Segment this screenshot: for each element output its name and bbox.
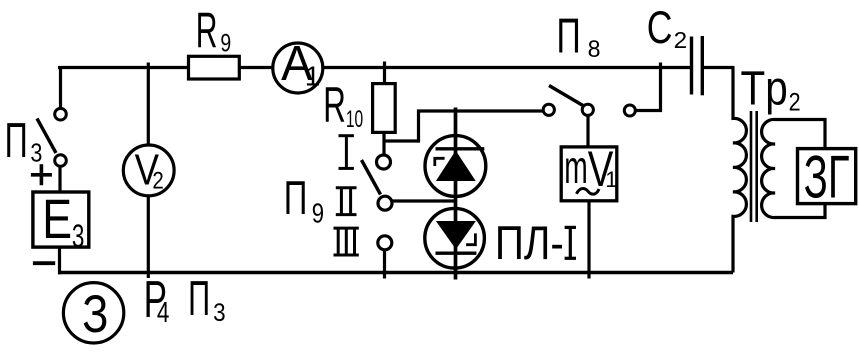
transformer Tр2 secondary winding bbox=[762, 119, 825, 217]
switch П8 left contact bbox=[543, 104, 554, 115]
svg-text:R: R bbox=[323, 77, 346, 133]
battery E3 box bbox=[33, 192, 89, 247]
svg-text:3: 3 bbox=[213, 299, 226, 327]
svg-text:ПЛ-: ПЛ- bbox=[495, 216, 564, 269]
label plus bbox=[31, 164, 52, 185]
label П3 left bbox=[5, 114, 43, 168]
wire jog R10 node to П8 left contact bbox=[385, 111, 544, 141]
wire V2 branch upper bbox=[147, 63, 150, 149]
label П8 bbox=[557, 9, 601, 63]
upper diode corner mark bbox=[435, 158, 445, 166]
wire R10 stub bbox=[383, 62, 386, 84]
wire mV1 to bottom bus bbox=[587, 201, 590, 279]
transformer Tр2 core bbox=[751, 111, 757, 222]
svg-text:2: 2 bbox=[152, 167, 163, 194]
switch П9 contact I bbox=[377, 155, 391, 169]
svg-text:10: 10 bbox=[346, 106, 363, 133]
wire battery to bottom bus bbox=[58, 247, 61, 274]
label C2 bbox=[647, 2, 688, 53]
transformer Tр2 primary winding bbox=[733, 68, 746, 273]
svg-text:E: E bbox=[42, 187, 72, 250]
label R10 bbox=[323, 77, 363, 133]
lower diode cathode bar bbox=[436, 252, 477, 255]
switch arm П9 bbox=[362, 160, 381, 195]
switch П8 right contact bbox=[624, 105, 635, 116]
label position I bbox=[339, 136, 354, 169]
label ПЛ-I roman I bbox=[565, 227, 576, 258]
wire П9 position III to bottom bus bbox=[383, 250, 386, 279]
svg-text:C: C bbox=[647, 2, 673, 53]
svg-text:8: 8 bbox=[588, 36, 601, 63]
label mV1 tilde bbox=[577, 188, 600, 194]
svg-text:ЗГ: ЗГ bbox=[804, 143, 850, 210]
svg-text:П: П bbox=[188, 272, 210, 326]
label A1 bbox=[281, 37, 320, 92]
switch П3 top contact bbox=[55, 108, 67, 120]
resistor R9 bbox=[189, 56, 240, 79]
wire П8 right contact to top bus bbox=[637, 63, 661, 111]
wire П8 middle contact to mV1 bbox=[586, 116, 589, 147]
wire bottom bus bbox=[58, 271, 733, 275]
label position III bbox=[334, 228, 359, 255]
resistor R10 bbox=[373, 84, 396, 133]
label mV1 bbox=[564, 141, 617, 197]
switch П3 bottom contact bbox=[55, 155, 67, 167]
capacitor C2 bbox=[692, 36, 703, 95]
svg-text:4: 4 bbox=[157, 297, 170, 329]
label R9 bbox=[196, 2, 232, 58]
label minus bbox=[33, 261, 55, 265]
label Tр2 bbox=[741, 63, 801, 117]
svg-text:Tр: Tр bbox=[741, 63, 788, 116]
svg-text:1: 1 bbox=[305, 61, 321, 92]
wire V2 branch lower bbox=[147, 195, 150, 279]
ammeter A1 circle bbox=[273, 43, 323, 93]
wire R10 to contact I bbox=[382, 133, 385, 155]
switch П9 contact II bbox=[378, 196, 392, 210]
lower diode triangle bbox=[436, 221, 476, 249]
label П3 bottom bbox=[188, 272, 226, 327]
svg-text:П: П bbox=[284, 171, 308, 224]
switch П9 contact III bbox=[378, 236, 392, 250]
wire left drop to switch П3 bbox=[59, 68, 62, 108]
svg-text:9: 9 bbox=[220, 30, 231, 58]
wire switch П3 to battery bbox=[58, 167, 61, 191]
svg-text:1: 1 bbox=[605, 167, 617, 192]
upper diode triangle bbox=[436, 151, 476, 182]
indicator circle З bbox=[63, 283, 123, 343]
label П9 bbox=[284, 171, 324, 228]
millivoltmeter mV1 box bbox=[561, 147, 617, 201]
device ПЛ-I lower diode circle bbox=[425, 208, 485, 268]
svg-text:П: П bbox=[5, 114, 28, 168]
svg-text:m: m bbox=[564, 141, 588, 193]
svg-text:9: 9 bbox=[312, 198, 324, 229]
switch arm П3 bbox=[37, 119, 56, 154]
switch П8 middle contact bbox=[582, 104, 593, 115]
svg-text:П: П bbox=[557, 9, 581, 63]
svg-text:R: R bbox=[196, 2, 218, 58]
label V2 bbox=[135, 145, 164, 194]
svg-text:2: 2 bbox=[789, 88, 801, 116]
switch arm П8 bbox=[549, 86, 586, 108]
label position II bbox=[336, 188, 357, 215]
svg-text:2: 2 bbox=[674, 27, 688, 53]
label P4 bbox=[144, 271, 170, 329]
svg-text:З: З bbox=[82, 285, 108, 344]
generator ЗГ box bbox=[798, 149, 856, 204]
lower diode corner mark bbox=[466, 233, 475, 244]
wire П9 position II to diode midpoint bbox=[392, 199, 456, 202]
label E3 bbox=[42, 187, 84, 254]
wire top bus bbox=[58, 66, 690, 69]
wire capacitor C2 to transformer bbox=[702, 66, 735, 69]
wire diode stem bbox=[454, 108, 458, 280]
voltmeter V2 circle bbox=[123, 145, 174, 196]
device ПЛ-I upper diode circle bbox=[425, 136, 486, 197]
svg-text:3: 3 bbox=[30, 138, 42, 168]
svg-text:3: 3 bbox=[72, 218, 85, 254]
upper diode cathode bar bbox=[436, 147, 485, 150]
